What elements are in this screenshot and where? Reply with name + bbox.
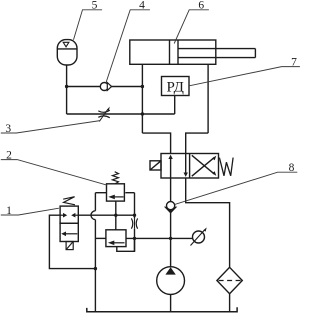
- svg-text:7: 7: [291, 56, 297, 68]
- svg-text:2: 2: [6, 149, 12, 161]
- svg-text:8: 8: [289, 162, 295, 174]
- svg-text:5: 5: [92, 0, 98, 12]
- svg-text:6: 6: [198, 0, 204, 12]
- svg-text:1: 1: [6, 205, 12, 217]
- svg-text:РД: РД: [166, 79, 183, 95]
- svg-text:4: 4: [139, 0, 145, 12]
- svg-text:3: 3: [5, 123, 11, 135]
